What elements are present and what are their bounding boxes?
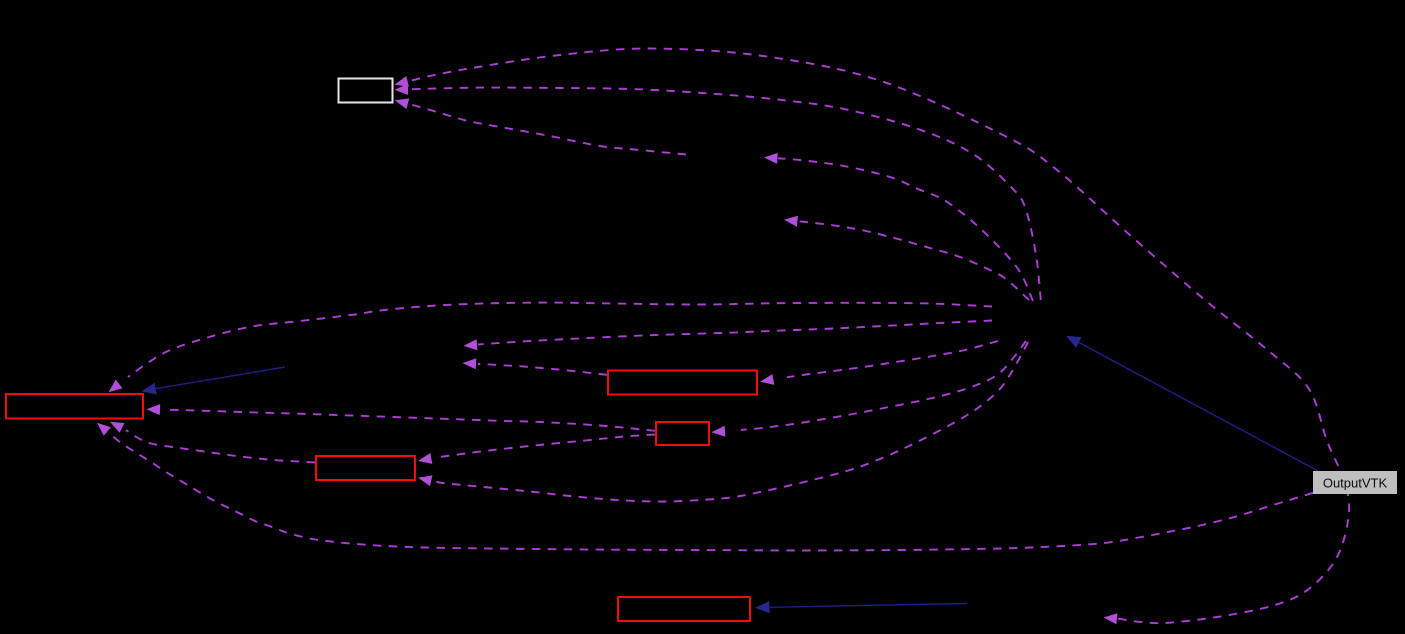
svg-text:OutputVTK: OutputVTK — [1323, 476, 1388, 491]
dashed edge OutputVTK to left red box (long bottom route) — [112, 436, 1313, 551]
dashed edge hub to lower-left red box (sweep) — [436, 342, 1028, 502]
dashed edge hub to invisible node upper-middle — [778, 158, 1033, 301]
dashed edge small red box to left red box — [164, 410, 655, 431]
node box center red — [608, 371, 757, 395]
dashed edge big arc between top white box and bottom-right invisible node — [397, 48, 1350, 623]
edge bottom-right invisible node to bottom red box (solid line) — [770, 604, 967, 608]
dashed edge invisible node to top white box (lower) — [412, 105, 686, 155]
dashed edge hub to top white box (middle) — [412, 88, 1041, 302]
dashed edge small red box to lower-left red box — [437, 435, 655, 458]
node box small red — [656, 422, 709, 445]
node box bottom red — [618, 597, 750, 621]
dashed edge hub to invisible node mid — [798, 221, 1029, 300]
node box left red — [6, 394, 143, 419]
arrowhead at left red box top — [142, 383, 157, 395]
edge OutputVTK to hub node (solid inheritance line) — [1079, 343, 1318, 472]
node box top (white border, empty) — [339, 79, 393, 103]
dashed edge hub to center red box — [787, 341, 998, 377]
edge invisible mid node to left red box (solid line) — [156, 367, 285, 389]
node OutputVTK (grey filled) — [1313, 471, 1397, 494]
dashed edge hub to invisible node left-mid (upper) — [478, 321, 992, 345]
dashed edge center red box to invisible node left-mid (lower) — [478, 364, 607, 375]
arrowhead at hub end of OutputVTK inheritance edge — [1066, 336, 1082, 348]
dashed edge lower-left red box to left red box — [126, 430, 315, 463]
node box lower-left red — [316, 456, 415, 480]
dashed edge hub to small red box — [741, 341, 1026, 430]
arrowhead at bottom red box — [755, 601, 770, 613]
dashed edge hub to left red box (top route) — [128, 303, 992, 377]
